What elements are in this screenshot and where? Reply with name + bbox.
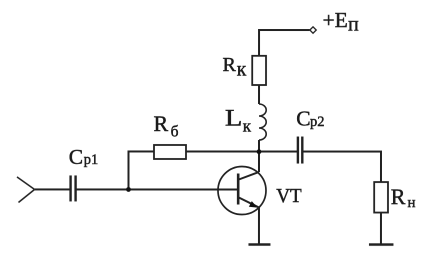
svg-text:C: C: [69, 145, 83, 169]
svg-text:R: R: [391, 184, 406, 209]
svg-text:+E: +E: [323, 8, 348, 32]
svg-text:н: н: [407, 195, 415, 211]
svg-text:п: п: [348, 14, 359, 36]
svg-text:R: R: [153, 111, 168, 136]
svg-text:L: L: [225, 106, 243, 131]
svg-text:VT: VT: [276, 185, 302, 207]
svg-text:б: б: [171, 123, 179, 140]
svg-text:р1: р1: [84, 152, 99, 168]
svg-text:р2: р2: [310, 114, 325, 130]
svg-text:к: к: [243, 116, 252, 135]
svg-text:к: к: [237, 60, 247, 81]
svg-text:R: R: [223, 54, 237, 76]
svg-text:C: C: [296, 106, 310, 130]
